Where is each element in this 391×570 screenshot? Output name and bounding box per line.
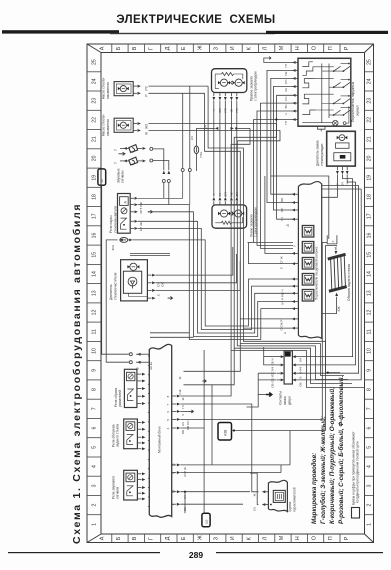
svg-text:ОБ: ОБ bbox=[271, 383, 275, 387]
svg-text:омывателя: омывателя bbox=[106, 119, 110, 136]
fuse F1 30A bbox=[111, 238, 133, 251]
left caption Схема 1 bbox=[71, 203, 83, 544]
svg-text:Р: Р bbox=[344, 536, 350, 540]
svg-text:18: 18 bbox=[367, 194, 373, 200]
wire pump1 feeds bbox=[149, 86, 209, 93]
svg-text:Р: Р bbox=[344, 46, 350, 50]
right mirror pin wires bbox=[212, 93, 239, 113]
svg-text:Ж: Ж bbox=[144, 132, 148, 135]
switch group (Группа переключателей) bbox=[268, 480, 296, 512]
svg-text:ЕЛ ЗЕ: ЕЛ ЗЕ bbox=[139, 222, 143, 231]
svg-text:Обогрев заднего стекла: Обогрев заднего стекла bbox=[347, 264, 351, 301]
left mirror unit (Левое зеркало с электроприводом) bbox=[212, 205, 258, 237]
header rule bbox=[2, 30, 388, 34]
wire bundle A staircase to column unit bbox=[133, 205, 295, 340]
wire bus mirror switch feeds bbox=[254, 57, 296, 249]
svg-text:С СЖ Р: С СЖ Р bbox=[280, 320, 284, 331]
svg-text:12: 12 bbox=[367, 310, 373, 316]
svg-text:6: 6 bbox=[92, 427, 98, 430]
block pins 11 8 bbox=[171, 463, 187, 477]
svg-text:Ж: Ж bbox=[197, 45, 203, 50]
svg-text:Ж: Ж bbox=[252, 493, 256, 496]
wire stub rows with coordinate labels bbox=[178, 344, 240, 465]
svg-text:ГЧ: ГЧ bbox=[181, 405, 185, 409]
svg-text:7: 7 bbox=[92, 407, 98, 410]
svg-text:Д: Д bbox=[165, 536, 171, 540]
wire bundle C bbox=[0, 0, 1, 1]
svg-text:1: 1 bbox=[367, 523, 373, 526]
mirror switch S1 (Переключатель наружных зеркал) bbox=[298, 58, 359, 126]
motor M3 wiper (Двигатель стеклоочистителя) bbox=[109, 260, 172, 301]
svg-text:5: 5 bbox=[92, 446, 98, 449]
wires door lock right side bbox=[297, 179, 361, 380]
svg-text:13: 13 bbox=[367, 290, 373, 296]
svg-text:30А: 30А bbox=[111, 244, 115, 250]
svg-text:Ж: Ж bbox=[178, 376, 182, 379]
steering column switches (Переключатели на рулевой колонке) bbox=[298, 182, 321, 339]
svg-text:9: 9 bbox=[367, 369, 373, 372]
svg-text:КЧ Р РЖ Ч: КЧ Р РЖ Ч bbox=[281, 290, 285, 305]
svg-text:Л: Л bbox=[263, 536, 269, 540]
inline connector КЧ bbox=[203, 125, 250, 130]
svg-text:10: 10 bbox=[367, 348, 373, 354]
relay K4 horn (Реле звукового сигнала) bbox=[111, 470, 145, 500]
svg-text:ОБ ОЧ: ОБ ОЧ bbox=[186, 421, 190, 430]
svg-text:ОБ: ОБ bbox=[280, 198, 284, 202]
wire pump2 feeds bbox=[149, 124, 281, 131]
svg-text:22: 22 bbox=[92, 117, 98, 123]
legend note with coordinate box bbox=[352, 431, 360, 518]
svg-text:21: 21 bbox=[92, 136, 98, 142]
svg-text:Н: Н bbox=[295, 536, 301, 540]
svg-text:8: 8 bbox=[367, 388, 373, 391]
svg-text:14: 14 bbox=[367, 271, 373, 277]
svg-text:с электроприводом: с электроприводом bbox=[254, 71, 258, 101]
svg-text:АЗВ: АЗВ bbox=[224, 430, 228, 436]
svg-text:6: 6 bbox=[367, 427, 373, 430]
svg-text:С: С bbox=[157, 293, 161, 296]
svg-text:Л: Л bbox=[263, 46, 269, 50]
svg-text:7: 7 bbox=[367, 407, 373, 410]
fuse-relay block (Монтажный блок) bbox=[148, 344, 172, 517]
svg-text:А: А bbox=[100, 536, 106, 540]
svg-text:ОС: ОС bbox=[280, 207, 284, 212]
svg-text:Е: Е bbox=[181, 46, 187, 50]
svg-text:СК: СК bbox=[252, 507, 256, 511]
wires switch group feeds bbox=[250, 473, 259, 504]
wire block top feeds bbox=[150, 333, 193, 338]
svg-text:заднего стекла: заднего стекла bbox=[116, 424, 120, 447]
svg-text:Переключатели на рулевой колон: Переключатели на рулевой колонке bbox=[314, 246, 318, 300]
svg-text:10: 10 bbox=[171, 489, 175, 493]
svg-text:У: У bbox=[114, 148, 118, 151]
column unit middle and lower pin rows bbox=[280, 252, 299, 334]
svg-text:19: 19 bbox=[367, 175, 373, 181]
wire pair bbox=[130, 254, 170, 256]
svg-text:ГЖ: ГЖ bbox=[284, 71, 288, 76]
connector X2 (Ш2) box bbox=[202, 513, 210, 527]
svg-text:СП: СП bbox=[224, 192, 228, 196]
svg-text:11: 11 bbox=[367, 329, 373, 334]
wire horn relay verticals bbox=[138, 86, 191, 205]
svg-text:Ж: Ж bbox=[197, 535, 203, 540]
motor M4 (Двигатель замка) bbox=[316, 131, 356, 166]
grid number cells bbox=[87, 59, 374, 526]
svg-text:15: 15 bbox=[92, 252, 98, 258]
wires door lock left side bbox=[247, 347, 278, 407]
wire right-lower verticals bbox=[281, 431, 290, 473]
wire label near АЗВ bbox=[186, 421, 190, 430]
svg-text:стеклоочистителя: стеклоочистителя bbox=[113, 272, 117, 300]
svg-text:289: 289 bbox=[189, 550, 203, 560]
svg-text:ГЖ: ГЖ bbox=[230, 192, 234, 197]
connector X1 (Ш5) box bbox=[98, 169, 106, 185]
page header title bbox=[116, 14, 275, 26]
svg-text:К: К bbox=[246, 536, 252, 540]
svg-text:8: 8 bbox=[92, 388, 98, 391]
svg-text:19: 19 bbox=[92, 175, 98, 181]
svg-text:А: А bbox=[283, 332, 287, 334]
wire block pin runs bbox=[180, 243, 322, 514]
svg-text:ЖЗ: ЖЗ bbox=[144, 124, 148, 129]
svg-text:КЧ: КЧ bbox=[181, 422, 185, 426]
svg-text:ГП: ГП bbox=[284, 121, 288, 125]
wires M4 to column unit and door bus bbox=[322, 174, 362, 197]
svg-text:О: О bbox=[312, 46, 318, 50]
motor M1 washer pump (Насос стеклоомывателя) bbox=[102, 77, 149, 99]
svg-text:14: 14 bbox=[92, 271, 98, 277]
svg-text:сигналы: сигналы bbox=[121, 170, 125, 183]
ground arrow pin6 bbox=[180, 410, 193, 413]
svg-text:СЧ: СЧ bbox=[284, 97, 288, 101]
svg-text:В: В bbox=[298, 376, 302, 378]
legend wire colours bbox=[311, 376, 345, 524]
svg-text:А: А bbox=[100, 46, 106, 50]
svg-text:омывателя: омывателя bbox=[106, 82, 110, 99]
svg-text:ОБ Ч: ОБ Ч bbox=[271, 358, 275, 365]
svg-text:4: 4 bbox=[92, 465, 98, 468]
svg-text:сигнала: сигнала bbox=[116, 487, 120, 499]
block pins 8-4 with wire labels bbox=[166, 395, 185, 435]
svg-text:21: 21 bbox=[367, 136, 373, 142]
svg-text:Схема 1. Схема электрооборудов: Схема 1. Схема электрооборудования автом… bbox=[71, 203, 83, 544]
wire defroster to ground bbox=[322, 302, 337, 314]
wire connector X1 to junction bbox=[102, 185, 130, 354]
svg-text:О: О bbox=[312, 536, 318, 540]
svg-text:23: 23 bbox=[92, 98, 98, 104]
svg-text:9: 9 bbox=[92, 369, 98, 372]
svg-text:Монтажный блок: Монтажный блок bbox=[158, 426, 162, 453]
svg-text:16: 16 bbox=[367, 233, 373, 239]
svg-text:17: 17 bbox=[92, 213, 98, 219]
mirror switch pin rows bbox=[284, 61, 298, 125]
svg-text:координаты присоединения токов: координаты присоединения токовой цепи bbox=[356, 441, 360, 503]
left mirror pin wires bbox=[212, 192, 239, 205]
svg-text:К: К bbox=[246, 46, 252, 50]
svg-text:Г: Г bbox=[149, 47, 155, 50]
svg-text:указателей: указателей bbox=[118, 390, 122, 407]
svg-text:25: 25 bbox=[367, 59, 373, 65]
svg-text:6: 6 bbox=[166, 411, 170, 413]
svg-text:Маркировка проводов:: Маркировка проводов: bbox=[311, 453, 318, 524]
svg-text:З: З bbox=[214, 47, 220, 50]
svg-text:У: У bbox=[331, 240, 335, 242]
svg-text:А: А bbox=[123, 201, 127, 204]
svg-text:ЧСТ РЖ: ЧСТ РЖ bbox=[139, 202, 143, 214]
svg-text:КЧ: КЧ bbox=[190, 136, 194, 140]
svg-text:ЧК: ЧК bbox=[284, 88, 288, 92]
svg-text:ОС КЧ: ОС КЧ bbox=[271, 367, 275, 376]
svg-text:переключателей: переключателей bbox=[293, 487, 297, 512]
svg-text:Д: Д bbox=[286, 224, 290, 226]
svg-text:СП: СП bbox=[284, 80, 288, 84]
svg-text:Б: Б bbox=[116, 536, 122, 540]
junction pins into fuse block bbox=[129, 353, 149, 370]
svg-text:16: 16 bbox=[92, 233, 98, 239]
svg-text:2: 2 bbox=[367, 504, 373, 507]
svg-text:Г-голубой; З-зеленый; Ж-желтый: Г-голубой; З-зеленый; Ж-желтый; bbox=[320, 416, 327, 524]
svg-text:Ж: Ж bbox=[181, 397, 185, 400]
svg-text:Р: Р bbox=[144, 94, 148, 96]
svg-text:10: 10 bbox=[92, 348, 98, 354]
connector bracket У bbox=[327, 235, 337, 244]
page number 289 bbox=[8, 550, 383, 560]
svg-text:20: 20 bbox=[367, 155, 373, 161]
svg-text:17: 17 bbox=[367, 213, 373, 219]
svg-text:22: 22 bbox=[367, 117, 373, 123]
wire bundle B nested corners bbox=[205, 86, 365, 387]
svg-text:ОБ У: ОБ У bbox=[271, 375, 275, 382]
svg-text:В: В bbox=[132, 536, 138, 540]
svg-text:24: 24 bbox=[367, 78, 373, 84]
svg-text:4: 4 bbox=[166, 427, 170, 429]
svg-text:З: З bbox=[214, 537, 220, 540]
svg-text:М: М bbox=[279, 535, 285, 540]
svg-text:13: 13 bbox=[92, 290, 98, 296]
relay K1 washer pause (Реле паузы стеклоомывателя) bbox=[109, 194, 152, 234]
svg-text:С: С bbox=[280, 266, 284, 269]
wire fuse to junction B bbox=[106, 240, 129, 362]
svg-text:КЧП Ж: КЧП Ж bbox=[183, 467, 187, 477]
svg-text:СГ Ж: СГ Ж bbox=[280, 256, 284, 264]
svg-text:стеклоомывателя: стеклоомывателя bbox=[113, 206, 117, 233]
svg-text:10 11: 10 11 bbox=[149, 362, 153, 370]
svg-text:СЖ: СЖ bbox=[178, 389, 182, 394]
wire wiper motor feeds bbox=[156, 247, 241, 290]
svg-text:зеркал: зеркал bbox=[355, 106, 359, 116]
svg-text:20: 20 bbox=[92, 155, 98, 161]
svg-text:5: 5 bbox=[166, 419, 170, 421]
wire horn feeds with connector pins bbox=[153, 149, 171, 205]
svg-text:ЭЛЕКТРИЧЕСКИЕ СХЕМЫ: ЭЛЕКТРИЧЕСКИЕ СХЕМЫ bbox=[116, 14, 275, 26]
svg-text:1: 1 bbox=[92, 523, 98, 526]
svg-text:4: 4 bbox=[367, 465, 373, 468]
svg-text:Р-розовый; С-серый; Б-белый, Ф: Р-розовый; С-серый; Б-белый, Ф-фиолетовы… bbox=[338, 376, 345, 524]
svg-text:М: М bbox=[279, 45, 285, 50]
svg-text:3: 3 bbox=[92, 484, 98, 487]
svg-text:У: У bbox=[114, 161, 118, 164]
svg-text:25: 25 bbox=[92, 59, 98, 65]
relay box АЗВ with junction bbox=[218, 423, 326, 441]
svg-text:П: П bbox=[328, 46, 334, 50]
svg-text:Б: Б bbox=[116, 46, 122, 50]
column unit upper pin rows bbox=[280, 193, 298, 227]
right mirror unit (Правое зеркало с электроприводом) bbox=[212, 69, 258, 101]
svg-text:2: 2 bbox=[92, 504, 98, 507]
svg-text:ОБ: ОБ bbox=[298, 382, 302, 386]
svg-text:И: И bbox=[230, 46, 236, 50]
svg-text:РЗ: РЗ bbox=[144, 86, 148, 90]
connector bracket E bbox=[318, 126, 326, 131]
svg-text:двери: двери bbox=[288, 396, 292, 405]
wire long horizontal to bracket bbox=[271, 176, 329, 239]
svg-text:8: 8 bbox=[166, 395, 170, 397]
svg-text:7: 7 bbox=[166, 403, 170, 405]
ground arrow bold bbox=[266, 393, 272, 397]
grid letter cells bbox=[100, 44, 351, 543]
svg-text:5: 5 bbox=[367, 446, 373, 449]
svg-text:Е: Е bbox=[181, 536, 187, 540]
svg-text:КЧ: КЧ bbox=[298, 358, 302, 362]
svg-text:7,5А: 7,5А bbox=[199, 152, 203, 158]
svg-text:замка: замка bbox=[283, 396, 287, 405]
svg-text:стеклоукладки: стеклоукладки bbox=[320, 144, 324, 166]
svg-text:Ш2: Ш2 bbox=[204, 519, 208, 524]
svg-text:11: 11 bbox=[92, 329, 98, 334]
svg-text:К-коричневый; П-пурпурный; О-о: К-коричневый; П-пурпурный; О-оранжевый; bbox=[329, 387, 336, 524]
svg-text:20: 20 bbox=[100, 179, 104, 183]
svg-text:Н: Н bbox=[295, 46, 301, 50]
svg-text:Ч: Ч bbox=[212, 194, 216, 196]
wire unit rows to verticals bbox=[240, 176, 295, 328]
rear window defroster (Обогрев заднего стекла) bbox=[327, 245, 350, 311]
relay K2 (Реле сброса указателей поворота) bbox=[114, 369, 146, 407]
svg-text:У: У bbox=[293, 245, 297, 247]
wire bundle between mirrors bbox=[214, 100, 237, 196]
svg-text:В: В bbox=[132, 46, 138, 50]
svg-text:КЖ: КЖ bbox=[337, 307, 341, 312]
svg-text:Д: Д bbox=[165, 46, 171, 50]
svg-text:24: 24 bbox=[92, 78, 98, 84]
svg-text:Г: Г bbox=[149, 537, 155, 540]
svg-text:Контакты: Контакты bbox=[279, 391, 283, 405]
svg-text:23: 23 bbox=[367, 98, 373, 104]
svg-text:ОБ: ОБ bbox=[181, 430, 185, 434]
svg-text:КЧ: КЧ bbox=[218, 193, 222, 197]
horns B1 B2 (Звуковые сигналы) bbox=[114, 145, 153, 183]
svg-text:ГП: ГП bbox=[284, 64, 288, 68]
svg-text:Ч: Ч bbox=[181, 414, 185, 416]
svg-text:15: 15 bbox=[367, 252, 373, 258]
wire bundle C stubs bbox=[248, 243, 337, 431]
motor M2 washer pump (Насос стеклоомывателя) bbox=[102, 114, 149, 136]
block pins 10 4 bbox=[171, 489, 187, 511]
svg-text:3: 3 bbox=[367, 484, 373, 487]
svg-text:18: 18 bbox=[92, 194, 98, 200]
svg-text:Ч: Ч bbox=[284, 113, 288, 115]
motor M4 pin wires bbox=[336, 166, 350, 186]
svg-text:БЧ: БЧ bbox=[284, 105, 288, 109]
svg-text:12: 12 bbox=[92, 310, 98, 316]
svg-text:П: П bbox=[328, 536, 334, 540]
schematic border frame bbox=[87, 44, 374, 543]
switch group pin wires bbox=[252, 490, 271, 511]
fuse F2 7,5A bbox=[190, 128, 212, 171]
door lock contacts (Контакты замка двери) bbox=[271, 351, 303, 405]
svg-text:И: И bbox=[230, 536, 236, 540]
relay K3 rear window defrost (Реле обогрева заднего стекла) bbox=[111, 419, 145, 450]
